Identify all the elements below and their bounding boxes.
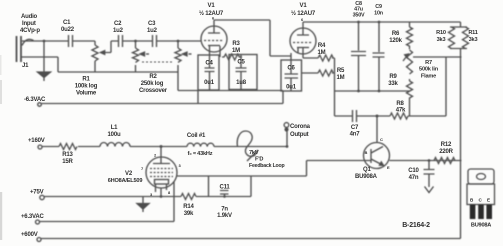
svg-text:R13: R13 — [62, 152, 73, 158]
svg-text:0u22: 0u22 — [61, 27, 75, 33]
svg-text:F'D: F'D — [255, 157, 263, 163]
svg-text:350V: 350V — [353, 13, 365, 19]
svg-text:0u1: 0u1 — [204, 80, 215, 86]
svg-text:R4: R4 — [318, 43, 326, 49]
svg-text:R1: R1 — [82, 77, 90, 83]
svg-text:C11: C11 — [219, 185, 230, 191]
svg-text:6HO8A/EL509: 6HO8A/EL509 — [108, 178, 143, 184]
svg-text:R8: R8 — [396, 101, 404, 107]
svg-text:1u2: 1u2 — [113, 28, 124, 34]
svg-text:Flame: Flame — [421, 74, 436, 80]
svg-text:7kV: 7kV — [249, 150, 259, 156]
svg-text:Volume: Volume — [76, 91, 97, 97]
svg-text:3k3: 3k3 — [469, 37, 478, 43]
svg-text:R12: R12 — [441, 142, 452, 148]
svg-text:47n: 47n — [409, 175, 419, 181]
svg-text:BU908A: BU908A — [355, 174, 378, 180]
svg-text:C9: C9 — [375, 4, 382, 10]
svg-text:Feedback Loop: Feedback Loop — [249, 163, 284, 169]
svg-text:47k: 47k — [396, 108, 406, 114]
svg-text:Corona: Corona — [290, 124, 311, 130]
svg-text:E: E — [487, 198, 490, 203]
svg-text:R6: R6 — [392, 31, 400, 37]
svg-text:V1: V1 — [300, 3, 308, 9]
svg-text:C1: C1 — [63, 20, 71, 26]
svg-text:C3: C3 — [148, 21, 156, 27]
svg-text:L1: L1 — [111, 125, 118, 131]
svg-text:B-2164-2: B-2164-2 — [402, 222, 430, 229]
svg-text:1M: 1M — [318, 50, 326, 56]
svg-text:B: B — [365, 150, 368, 155]
svg-text:Audio: Audio — [21, 14, 38, 20]
svg-text:10n: 10n — [374, 11, 383, 17]
svg-text:4n7: 4n7 — [350, 132, 361, 138]
svg-text:250k log: 250k log — [141, 81, 164, 87]
svg-text:+600V: +600V — [21, 232, 38, 238]
svg-text:C6: C6 — [287, 66, 295, 72]
svg-text:7n: 7n — [221, 207, 228, 213]
svg-text:Coil #1: Coil #1 — [187, 133, 206, 139]
svg-text:R2: R2 — [149, 74, 157, 80]
svg-text:R9: R9 — [389, 74, 397, 80]
svg-text:f₀ ≈ 43kHz: f₀ ≈ 43kHz — [188, 151, 213, 157]
svg-text:BU908A: BU908A — [471, 223, 491, 229]
svg-text:0u1: 0u1 — [286, 85, 297, 91]
svg-text:15R: 15R — [62, 159, 73, 165]
svg-text:R3: R3 — [232, 41, 240, 47]
svg-text:+6.3VAC: +6.3VAC — [21, 214, 45, 220]
svg-text:100u: 100u — [108, 132, 121, 138]
svg-text:C5: C5 — [237, 60, 245, 66]
svg-text:1u2: 1u2 — [147, 28, 158, 34]
svg-text:C: C — [380, 137, 383, 142]
svg-text:120k: 120k — [389, 38, 402, 44]
svg-text:C10: C10 — [408, 168, 419, 174]
svg-text:V1: V1 — [208, 3, 216, 9]
svg-text:R7: R7 — [425, 60, 432, 66]
svg-text:+75V: +75V — [30, 190, 44, 196]
svg-text:100k log: 100k log — [75, 84, 98, 90]
svg-text:Input: Input — [22, 21, 36, 27]
svg-text:220R: 220R — [439, 149, 453, 155]
svg-text:J1: J1 — [22, 63, 29, 69]
svg-text:1.9kV: 1.9kV — [217, 213, 232, 219]
svg-text:C4: C4 — [205, 61, 213, 67]
svg-text:Q1: Q1 — [363, 167, 371, 173]
svg-text:V2: V2 — [125, 171, 133, 177]
svg-text:R14: R14 — [183, 204, 194, 210]
svg-text:C7: C7 — [351, 125, 359, 131]
svg-text:1u8: 1u8 — [236, 80, 247, 86]
svg-text:R10: R10 — [436, 30, 446, 36]
svg-text:C2: C2 — [114, 21, 122, 27]
svg-text:Output: Output — [290, 132, 309, 138]
svg-text:Crossover: Crossover — [139, 88, 168, 94]
svg-text:33k: 33k — [388, 81, 398, 87]
svg-text:+160V: +160V — [28, 138, 45, 144]
svg-text:3k3: 3k3 — [437, 37, 446, 43]
svg-text:½ 12AU7: ½ 12AU7 — [291, 10, 316, 17]
svg-text:-6.3VAC: -6.3VAC — [24, 97, 46, 103]
svg-text:39k: 39k — [184, 211, 194, 217]
svg-text:4CVp-p: 4CVp-p — [20, 28, 40, 34]
svg-text:1M: 1M — [337, 75, 345, 81]
svg-text:500k lin: 500k lin — [419, 67, 439, 73]
svg-text:R11: R11 — [468, 30, 477, 36]
svg-text:1M: 1M — [232, 48, 240, 54]
svg-text:R5: R5 — [337, 68, 345, 74]
